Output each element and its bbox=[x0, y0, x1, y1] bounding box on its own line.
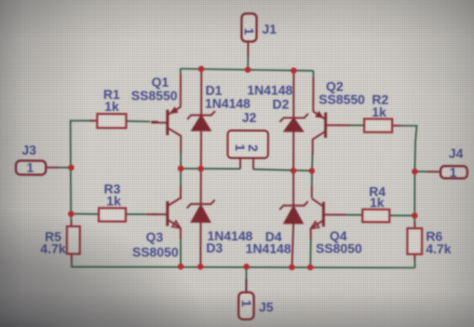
svg-text:1: 1 bbox=[239, 300, 254, 307]
svg-text:D2: D2 bbox=[272, 96, 289, 111]
svg-text:D3: D3 bbox=[206, 240, 223, 255]
svg-text:J3: J3 bbox=[22, 143, 37, 158]
svg-text:SS8550: SS8550 bbox=[131, 88, 177, 103]
svg-text:2: 2 bbox=[245, 144, 260, 151]
svg-text:4.7k: 4.7k bbox=[40, 241, 66, 256]
svg-text:SS8050: SS8050 bbox=[132, 245, 178, 260]
svg-text:1N4148: 1N4148 bbox=[205, 96, 251, 111]
svg-text:1N4148: 1N4148 bbox=[245, 241, 291, 256]
svg-text:1: 1 bbox=[241, 28, 256, 35]
svg-text:J1: J1 bbox=[262, 22, 277, 37]
svg-text:4.7k: 4.7k bbox=[426, 241, 452, 256]
svg-text:1k: 1k bbox=[105, 99, 120, 114]
svg-text:J4: J4 bbox=[449, 146, 464, 161]
svg-text:SS8050: SS8050 bbox=[316, 241, 362, 256]
svg-text:1k: 1k bbox=[370, 195, 385, 210]
svg-text:J2: J2 bbox=[242, 110, 257, 125]
svg-text:1k: 1k bbox=[107, 193, 122, 208]
svg-text:1: 1 bbox=[26, 160, 33, 175]
svg-text:1: 1 bbox=[449, 165, 456, 180]
svg-text:J5: J5 bbox=[259, 300, 274, 315]
svg-text:SS8550: SS8550 bbox=[319, 92, 365, 107]
svg-text:Q3: Q3 bbox=[146, 230, 163, 245]
svg-text:1k: 1k bbox=[372, 105, 387, 120]
svg-text:1: 1 bbox=[232, 144, 247, 151]
